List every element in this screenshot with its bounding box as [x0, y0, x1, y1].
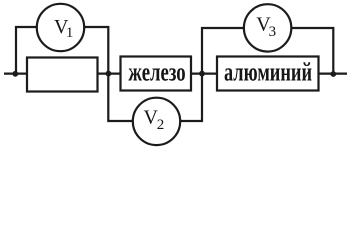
voltmeter V2 circle — [133, 98, 180, 145]
wire between box R and iron box — [98, 72, 121, 74]
resistor box "алюминий" R3 — [217, 57, 319, 91]
wire V1 left branch — [16, 27, 37, 74]
junction dot left — [12, 71, 18, 77]
svg-text:алюминий: алюминий — [224, 57, 312, 86]
wire V3 left branch — [202, 28, 244, 74]
resistor box R1 (unlabeled) — [27, 58, 98, 92]
wire main line right segment — [319, 72, 348, 74]
wire V2 left branch — [108, 74, 133, 121]
svg-text:2: 2 — [157, 117, 165, 133]
junction dot right — [330, 71, 336, 77]
label V1 — [54, 16, 73, 41]
resistor box "железо" R2 — [121, 57, 192, 91]
junction dot between iron and aluminium — [199, 71, 205, 77]
label V3 — [256, 14, 276, 41]
label V2 — [144, 107, 165, 133]
svg-text:3: 3 — [269, 24, 277, 40]
wire main line left segment — [4, 72, 26, 74]
voltmeter V3 circle — [244, 4, 291, 51]
wire between iron and aluminium boxes — [191, 72, 217, 74]
voltmeter V1 circle — [37, 4, 84, 51]
svg-text:железо: железо — [128, 58, 185, 87]
wire V2 right branch — [180, 74, 202, 121]
wire V1 right branch — [84, 27, 108, 74]
svg-text:1: 1 — [66, 25, 74, 41]
wire V3 right branch — [291, 28, 333, 74]
junction dot between R and iron — [106, 71, 112, 77]
